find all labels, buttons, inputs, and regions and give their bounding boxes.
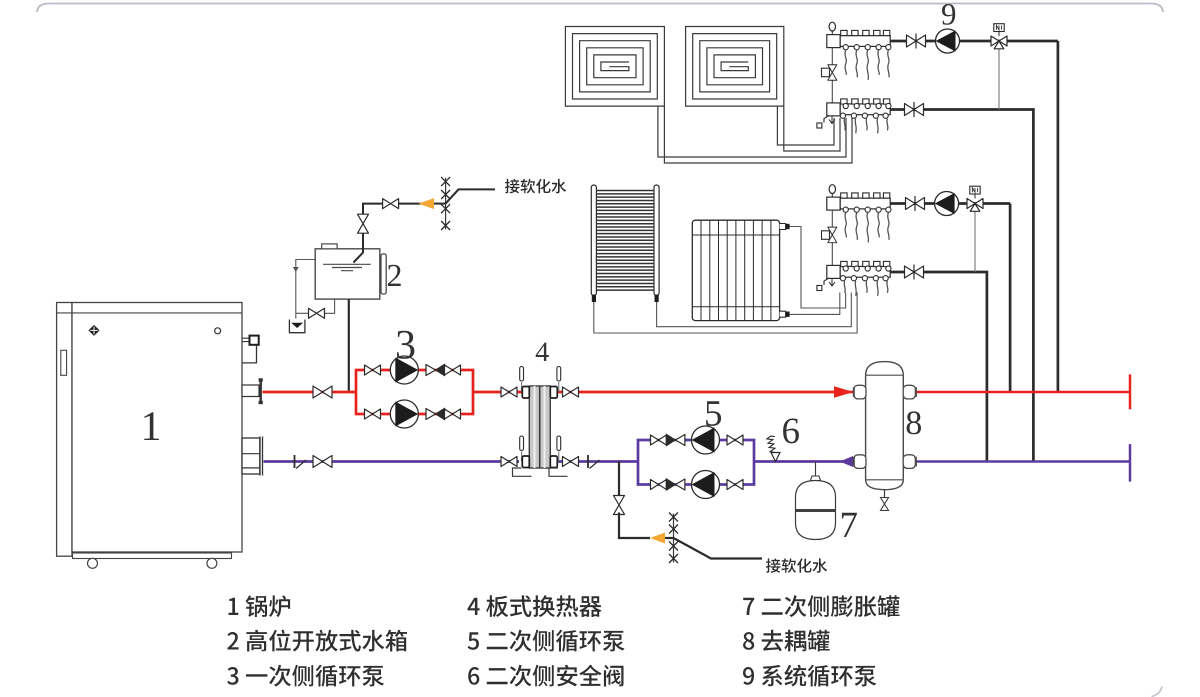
radiator circuit supply pipe to pump — [890, 202, 1010, 205]
HX support feet — [513, 468, 532, 476]
primary pump P3a — [390, 356, 418, 384]
red supply main — [263, 391, 357, 394]
floor-heating circuit supply manifold — [827, 22, 891, 80]
secondary bottom branch check — [666, 479, 685, 491]
tank 8 ports — [854, 385, 866, 399]
secondary top branch valve — [651, 435, 667, 445]
boiler supply stub — [242, 378, 263, 404]
HX right red valve — [563, 387, 579, 397]
panel radiator body — [692, 220, 779, 320]
towel radiator feet — [592, 295, 596, 303]
boiler feet — [88, 558, 98, 568]
purple union — [295, 455, 307, 469]
secondary top branch check — [666, 434, 685, 446]
panel radiator top stub — [780, 224, 786, 230]
softened water capped connection (bottom) — [669, 513, 678, 564]
tank 8 drain — [884, 490, 886, 498]
label 8 — [907, 411, 921, 434]
HX left red valve — [501, 387, 517, 397]
label 5 — [706, 401, 721, 426]
HX right purple valve — [563, 457, 579, 467]
radiator circuit bypass line — [974, 210, 976, 272]
primary pump bottom branch valve — [365, 409, 381, 419]
softened water arrow (bottom) — [650, 533, 665, 544]
boiler label 1 — [144, 412, 159, 440]
red arrow into tank 8 — [834, 386, 854, 398]
purple arrow out of tank 8 — [840, 456, 854, 467]
boiler return stub — [242, 437, 263, 476]
card bottom-right corner — [1152, 687, 1163, 697]
purple right segment — [915, 460, 1130, 463]
radiator circuit balance valve — [822, 210, 837, 266]
panel radiator section lines — [701, 220, 771, 320]
floor circuit supply drop to red main — [1057, 41, 1060, 392]
floor heating coil left — [565, 27, 664, 107]
secondary bottom branch valve — [651, 480, 667, 490]
coil left supply pipe — [658, 106, 846, 157]
towel radiator left tube — [591, 185, 596, 296]
towel radiator right leg pipe — [657, 293, 852, 327]
boiler burner symbol — [89, 326, 99, 336]
red supply main right segment — [915, 391, 1130, 394]
decoupling tank 8 body — [866, 362, 904, 490]
legend item l1 — [229, 595, 291, 617]
HX thermometers — [520, 367, 524, 393]
boiler 1 body — [57, 303, 242, 559]
boiler supply valve — [313, 386, 332, 398]
primary pump top branch valve 2 — [445, 365, 461, 375]
legend item l5 — [468, 630, 625, 652]
softened water line (bottom) — [674, 538, 763, 559]
HX ports — [522, 387, 529, 399]
boiler sight glass — [215, 328, 221, 334]
label 接软化水 (bottom) — [766, 558, 827, 572]
primary pump P3b — [390, 400, 418, 428]
label 接软化水 (top) — [505, 179, 566, 193]
label 7 — [842, 513, 857, 537]
tank fill valve vertical — [358, 214, 369, 233]
secondary pump P5b — [692, 471, 720, 499]
floor circuit supply pipe to pump — [890, 40, 1058, 43]
red supply end bar — [1129, 374, 1132, 409]
coil right return pipe — [784, 106, 840, 151]
tank lid — [322, 244, 337, 249]
open tank 2 overflow pipe — [296, 260, 315, 319]
purple end bar — [1129, 444, 1132, 482]
towel radiator left leg pipe — [594, 293, 857, 334]
floor circuit 3-way valve — [991, 24, 1007, 49]
primary pump top branch valve — [365, 365, 381, 375]
floor circuit return valve — [905, 104, 924, 116]
secondary bottom branch valve 2 — [727, 480, 743, 490]
floor circuit supply valve — [907, 35, 926, 47]
legend item l9 — [743, 665, 876, 687]
floor-heating circuit balance valve — [822, 48, 837, 104]
label 9 — [942, 4, 955, 25]
HX left purple valve — [501, 457, 517, 467]
primary pump top branch check valve — [426, 364, 445, 376]
softened water branch line (top) — [446, 189, 495, 203]
panel radiator header lines — [692, 235, 779, 307]
floor heating coil right — [686, 27, 784, 107]
tank fill pipe — [354, 231, 364, 263]
radiator circuit supply drop to red main — [1009, 204, 1012, 393]
legend item l3 — [227, 665, 384, 687]
radiator system pump 9 — [935, 192, 959, 216]
towel radiator rungs — [596, 191, 654, 291]
safety valve 6 — [767, 435, 780, 461]
floor-heating circuit return manifold — [817, 99, 891, 133]
panel radiator bottom stub — [780, 311, 786, 317]
radiator circuit return pipe — [890, 272, 987, 462]
purple secondary segment — [529, 460, 638, 463]
tank level gauge — [381, 254, 386, 294]
secondary pump P5a — [692, 426, 720, 454]
plate heat exchanger 4 — [529, 386, 550, 468]
tank label 2 — [388, 265, 401, 286]
radiator circuit 3-way valve — [967, 186, 983, 211]
open tank 2 drain valve pipe — [296, 299, 335, 313]
tank water level — [323, 264, 371, 270]
label 3 — [397, 331, 414, 359]
coil left return pipe — [664, 106, 852, 163]
label 4 — [536, 343, 549, 361]
drain funnel — [289, 320, 305, 333]
legend item l2 — [227, 630, 407, 652]
purple boiler valve — [313, 456, 332, 468]
radiator circuit return manifold — [817, 261, 891, 295]
legend item l4 — [468, 595, 602, 617]
primary pump bottom branch check valve — [426, 408, 445, 420]
primary pump bottom branch valve 2 — [445, 409, 461, 419]
legend item l7 — [743, 595, 899, 617]
boiler relief valve assembly — [242, 336, 259, 363]
open tank 2 body — [315, 249, 380, 299]
expansion tank 7 stem — [815, 462, 817, 477]
legend item l6 — [468, 665, 623, 687]
purple return main (boiler side) — [264, 460, 520, 463]
legend item l8 — [743, 630, 830, 652]
tank outlet pipe to red main — [348, 299, 350, 392]
primary pump group box — [356, 370, 473, 414]
label 6 — [783, 419, 799, 444]
card top border frame — [37, 4, 1163, 13]
radiator circuit supply manifold — [827, 185, 891, 243]
softened water capped connection (top) — [441, 177, 450, 230]
secondary top branch valve 2 — [727, 435, 743, 445]
softened water branch (bottom) — [618, 462, 620, 498]
towel radiator right tube — [654, 185, 659, 296]
expansion tank 7 — [796, 476, 836, 540]
panel radiator return pipe — [790, 293, 840, 315]
system pump 9 — [936, 29, 960, 53]
floor circuit bypass line — [998, 47, 1000, 110]
coil right supply pipe — [777, 106, 834, 145]
panel radiator supply pipe — [790, 227, 846, 309]
purple union right — [588, 455, 600, 469]
softened water inlet arrow (top) — [419, 198, 435, 209]
radiator circuit return valve — [905, 266, 924, 278]
radiator circuit supply valve — [906, 198, 925, 210]
tank fill gate valve — [399, 203, 434, 205]
floor circuit return pipe — [890, 110, 1033, 462]
secondary pump group box — [638, 440, 754, 485]
